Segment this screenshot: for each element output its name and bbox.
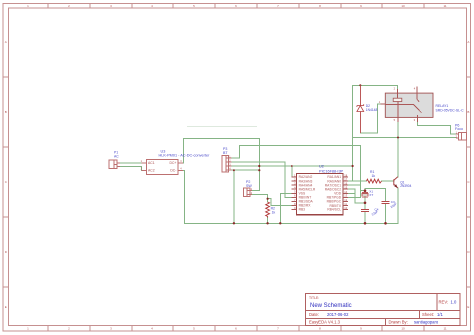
svg-text:E: E — [5, 305, 7, 309]
svg-text:11: 11 — [443, 4, 446, 8]
wire P3 pin1 riser and long run — [232, 145, 361, 158]
wire P3 pin2 to RB0 — [232, 162, 292, 197]
wire pin16 OSC1 — [348, 184, 361, 186]
svg-text:B: B — [5, 110, 7, 114]
relay coil — [393, 98, 402, 101]
junction crystal bottom node — [364, 202, 367, 205]
wire R2 bottom to rail — [267, 218, 269, 224]
svg-text:Drawn By:: Drawn By: — [389, 320, 408, 325]
svg-text:1N4148: 1N4148 — [366, 108, 378, 112]
svg-text:Sheet:: Sheet: — [422, 312, 434, 317]
svg-text:AC2: AC2 — [148, 168, 155, 172]
converter U3 — [141, 159, 183, 174]
label C3 22pF — [390, 200, 398, 209]
wire R2 node to RB2 — [268, 199, 292, 206]
junction D2 top / relay coil supply — [359, 84, 361, 86]
wire relay top supply — [353, 84, 398, 86]
relay pin numbers — [379, 87, 416, 122]
wire ground rail — [184, 222, 398, 224]
svg-text:SW: SW — [246, 184, 252, 188]
relay NO contact bottom — [417, 115, 419, 122]
wire VSS to ground — [280, 193, 291, 223]
wire crystal bottom to C4 — [364, 203, 366, 210]
wire P3 pin4 ground drop — [233, 170, 235, 223]
svg-text:A: A — [5, 40, 7, 44]
connector P6 — [456, 132, 467, 140]
wire Q1 emitter down to rail — [397, 188, 399, 223]
wire P1 pin1 to U3 AC1 — [120, 162, 141, 164]
label D2 1N4148 — [366, 104, 378, 112]
svg-text:1k: 1k — [272, 210, 276, 214]
svg-text:Date:: Date: — [309, 312, 319, 317]
svg-text:santiagoparo: santiagoparo — [414, 320, 439, 325]
title block text — [309, 296, 448, 325]
pin numbers left — [294, 173, 296, 210]
resistor R1 — [367, 179, 382, 183]
svg-text:10: 10 — [401, 326, 405, 330]
svg-text:XT: XT — [369, 193, 373, 197]
wire relay coil bottom to Q1 collector — [397, 122, 399, 177]
svg-text:E: E — [467, 305, 469, 309]
svg-text:2N3904: 2N3904 — [400, 184, 411, 188]
label X1 — [369, 189, 373, 197]
svg-text:DC+: DC+ — [170, 161, 177, 165]
relay switch common pin 1 — [381, 87, 422, 122]
junction ground rail / P3 pin4 — [233, 222, 235, 224]
wire crystal leads — [364, 191, 366, 193]
svg-text:2017-06-02: 2017-06-02 — [327, 312, 349, 317]
wire pin15 OSC2 to crystal bottom — [348, 189, 365, 203]
wire P1 pin2 to U3 AC2 — [120, 167, 146, 171]
capacitor C4 — [361, 209, 369, 211]
transistor Q1 — [394, 177, 398, 188]
label U3 — [159, 149, 211, 157]
label Q1 2N3904 — [400, 180, 411, 188]
wire P3 pin4 run — [232, 169, 260, 171]
pin numbers right — [344, 173, 347, 210]
svg-text:1.0: 1.0 — [451, 300, 457, 305]
connector P1 — [109, 160, 120, 168]
junction ground rail / R2 — [266, 222, 268, 224]
label RELAY1 — [436, 104, 465, 112]
junction RA2 branch — [291, 165, 293, 167]
label C4 22pF — [371, 207, 379, 216]
svg-text:1k: 1k — [372, 174, 376, 178]
junction ground rail / C4 — [364, 222, 367, 225]
relay NC contact top — [416, 87, 418, 100]
relay RELAY1 — [379, 87, 433, 122]
svg-text:10: 10 — [401, 4, 405, 8]
wire R1 right lead to Q1 base — [382, 180, 394, 182]
crystal X1 — [362, 193, 368, 198]
wire crystal top node to C3 over-route — [365, 189, 386, 202]
pin names left — [299, 175, 316, 212]
label P6 Foco — [455, 123, 463, 131]
svg-text:BT: BT — [223, 151, 228, 155]
junction ground rail / C3 — [384, 222, 387, 225]
wire P3 pin3 long run — [232, 165, 353, 167]
wire R2 top leads — [267, 199, 269, 202]
Q1 emitter arrow — [394, 184, 397, 188]
wire pin17 to R1 — [348, 180, 366, 182]
svg-text:PIC16F88-I3P: PIC16F88-I3P — [319, 169, 344, 173]
svg-text:U3: U3 — [161, 149, 166, 153]
label P2 SW — [246, 180, 252, 188]
svg-text:A: A — [467, 40, 469, 44]
label P1 AC — [114, 151, 119, 159]
wire faint AC line — [187, 126, 257, 128]
wire C3 bottom to rail — [385, 203, 387, 223]
wire +5V vertical down to P2 pin1 — [258, 138, 260, 190]
junction R2 top node — [267, 198, 269, 200]
relay coil pin leads — [397, 89, 399, 122]
wire P6 pin2 long line — [353, 137, 456, 139]
wire P2 pin2 to R2 top — [252, 194, 267, 198]
relay switch blade — [413, 104, 421, 113]
wire pin14 VDD stub — [348, 192, 355, 194]
svg-text:11: 11 — [443, 326, 446, 330]
left pin stubs — [292, 177, 297, 210]
junction node at x352 y166 — [352, 165, 354, 167]
junction P3 pin4 / P2 pin1 — [258, 169, 260, 171]
svg-text:Foco: Foco — [455, 127, 463, 131]
wire U3 DC+ up and right (+5V) — [183, 138, 259, 162]
svg-text:RB4/SCL: RB4/SCL — [327, 208, 341, 212]
title block — [306, 294, 460, 326]
junction P3 pin3 / +5V vertical — [258, 165, 260, 167]
label U2 — [319, 165, 344, 174]
label R2 1k — [271, 206, 276, 214]
svg-text:DC-: DC- — [170, 168, 176, 172]
wire osc to crystal top — [361, 190, 365, 192]
wire relay coil top lead — [397, 85, 399, 89]
junction ground rail / VSS — [279, 222, 281, 224]
IC U2 PIC16F88 — [292, 173, 349, 214]
wire D2 bottom route to relay pin1 — [360, 104, 380, 133]
capacitor C3 — [381, 201, 389, 203]
label R1 1k — [370, 170, 375, 178]
junction crystal top node — [364, 189, 367, 192]
resistor R2 — [266, 202, 270, 218]
svg-text:AC1: AC1 — [148, 161, 155, 165]
wire C4 bottom to rail — [364, 211, 366, 223]
junction relay coil bottom / P6 wire — [397, 136, 399, 138]
svg-text:HLK-PM01 - AC-DC-converter: HLK-PM01 - AC-DC-converter — [159, 154, 211, 158]
svg-text:U2: U2 — [319, 165, 324, 169]
label P3 BT — [223, 147, 228, 155]
svg-text:RELAY1: RELAY1 — [436, 104, 449, 108]
connector P2 — [243, 188, 252, 197]
wire U3 DC- down to ground rail — [183, 170, 184, 223]
wire osc vertical x=360.7 — [360, 145, 362, 197]
pin names right — [325, 175, 342, 212]
svg-text:RB3: RB3 — [299, 208, 306, 212]
svg-text:AC: AC — [114, 154, 119, 158]
svg-text:1/1: 1/1 — [437, 312, 443, 317]
svg-text:REV:: REV: — [439, 300, 449, 305]
wire relay NO contact to P6 pin1 — [418, 122, 456, 134]
svg-text:B: B — [467, 110, 469, 114]
connector P3 — [222, 156, 232, 173]
wire branch down to RA2 pin1 — [292, 166, 297, 177]
right pin stubs — [343, 177, 348, 210]
wire P2 pin1 horizontal — [252, 189, 259, 191]
diode D2 — [359, 85, 361, 133]
junction P3 pin4 ground drop — [233, 169, 235, 171]
svg-text:SRD-05VDC-SL-C: SRD-05VDC-SL-C — [436, 109, 465, 113]
svg-text:EasyEDA V4.1.3: EasyEDA V4.1.3 — [309, 320, 341, 325]
svg-text:TITLE:: TITLE: — [309, 296, 319, 300]
wire long vertical x=352.6 — [352, 85, 354, 181]
wire pin13 RB7 — [348, 196, 361, 198]
svg-text:New Schematic: New Schematic — [310, 303, 352, 309]
